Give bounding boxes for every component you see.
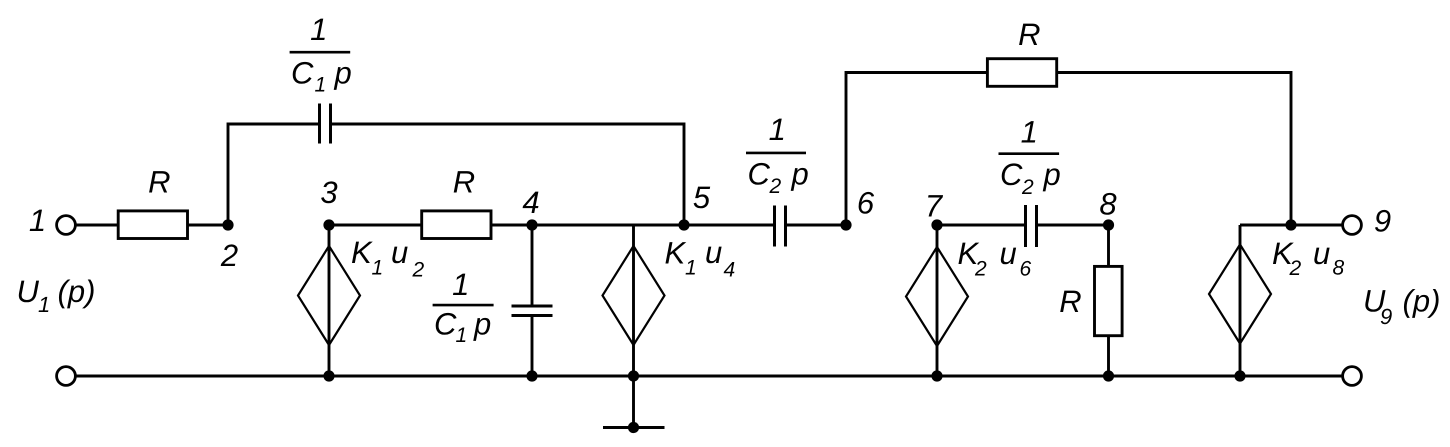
wire terminal1 to R1 xyxy=(76,224,119,227)
svg-text:8: 8 xyxy=(1333,257,1345,280)
wire capacitor C1b to rail xyxy=(531,317,534,376)
label K2 u8 xyxy=(1272,236,1345,280)
value label 1/C2p of C2b xyxy=(1000,115,1061,199)
wire node 5 to source branch xyxy=(634,224,685,227)
wire capacitor C1 to node 5 riser xyxy=(332,124,684,225)
node 9 junction xyxy=(1285,219,1296,230)
svg-text:R: R xyxy=(148,165,170,200)
svg-text:1: 1 xyxy=(1021,115,1038,150)
svg-text:2: 2 xyxy=(1289,257,1302,280)
svg-text:1: 1 xyxy=(372,257,384,280)
svg-text:4: 4 xyxy=(724,259,736,282)
svg-text:2: 2 xyxy=(769,175,782,198)
wire node 8 down to R4 xyxy=(1107,225,1110,266)
svg-text:p: p xyxy=(334,56,352,91)
wire diamond K2u8 to terminal 9 xyxy=(1240,224,1343,227)
resistor R4 xyxy=(1095,266,1123,335)
junction node5 branch on rail xyxy=(628,370,639,381)
svg-text:2: 2 xyxy=(974,258,987,281)
svg-text:5: 5 xyxy=(693,180,711,215)
svg-text:1: 1 xyxy=(29,203,46,238)
capacitor C2a plates xyxy=(773,206,776,247)
junction node7 branch on rail xyxy=(931,370,942,381)
node 8 xyxy=(1103,219,1114,230)
svg-text:8: 8 xyxy=(1099,187,1117,222)
svg-text:K: K xyxy=(665,236,687,271)
svg-text:3: 3 xyxy=(320,175,337,210)
svg-text:u: u xyxy=(1313,236,1330,271)
svg-text:(p): (p) xyxy=(1403,284,1441,319)
fraction bar of C1 label xyxy=(290,51,351,54)
wire node 3 to R2 xyxy=(329,224,422,227)
capacitor C2b plates xyxy=(1024,205,1027,247)
svg-text:C: C xyxy=(434,306,457,341)
svg-text:1: 1 xyxy=(310,12,327,47)
svg-text:C: C xyxy=(291,56,314,91)
wire source K2u8 branch down to rail xyxy=(1239,225,1242,376)
svg-text:1: 1 xyxy=(38,292,50,317)
ground stub xyxy=(632,376,635,428)
label U9(p) xyxy=(1363,284,1440,330)
label K2 u6 xyxy=(958,236,1032,281)
svg-text:1: 1 xyxy=(452,267,469,302)
wire node 7 down to rail xyxy=(936,225,939,376)
wire R4 to rail xyxy=(1107,335,1110,376)
svg-text:1: 1 xyxy=(456,324,468,347)
label U1(p) xyxy=(17,274,96,317)
resistor R2 xyxy=(422,211,491,239)
label K1 u4 xyxy=(665,235,736,282)
svg-text:U: U xyxy=(17,274,40,309)
resistor R3 xyxy=(987,59,1056,87)
wire R2 to node 5 xyxy=(491,224,684,227)
label K1 u2 xyxy=(351,235,425,282)
svg-text:u: u xyxy=(1000,236,1017,271)
terminal bottom right xyxy=(1343,367,1362,386)
node 6 xyxy=(840,219,851,230)
svg-text:p: p xyxy=(791,156,809,191)
svg-text:u: u xyxy=(705,235,722,270)
svg-text:C: C xyxy=(1000,157,1023,192)
node 2 xyxy=(222,219,233,230)
terminal 1 xyxy=(57,216,76,235)
terminal 9 xyxy=(1343,216,1362,235)
wire source branch down to rail xyxy=(632,225,635,376)
wire node 4 down to capacitor xyxy=(531,225,534,305)
value label 1/C1p of C1 xyxy=(291,12,352,97)
node 7 xyxy=(931,219,942,230)
svg-text:7: 7 xyxy=(925,189,944,224)
svg-text:C: C xyxy=(748,156,771,191)
svg-text:R: R xyxy=(1018,17,1040,52)
node 5 xyxy=(678,219,689,230)
fraction bar of C2b label xyxy=(999,152,1060,155)
junction node8 branch on rail xyxy=(1103,370,1114,381)
svg-text:1: 1 xyxy=(315,74,327,97)
svg-text:1: 1 xyxy=(685,257,697,280)
wire node 5 to capacitor C2a xyxy=(684,224,773,227)
wire R3 to node 9 riser xyxy=(1057,73,1291,226)
ground bar xyxy=(603,426,665,429)
svg-text:2: 2 xyxy=(220,238,238,273)
capacitor C1b plates xyxy=(512,305,553,308)
svg-text:K: K xyxy=(351,235,373,270)
terminal bottom left xyxy=(57,367,76,386)
node 3 xyxy=(323,219,334,230)
wire node 6 up to R3 xyxy=(846,73,987,226)
svg-text:R: R xyxy=(453,165,475,200)
svg-text:6: 6 xyxy=(1020,258,1032,281)
svg-text:(p): (p) xyxy=(58,274,96,309)
resistor R1 xyxy=(118,211,187,239)
wire node 3 down to rail xyxy=(328,225,331,376)
svg-text:9: 9 xyxy=(1374,204,1391,239)
svg-text:9: 9 xyxy=(1380,304,1392,329)
capacitor C1 plates xyxy=(318,104,321,144)
fraction bar of C1b label xyxy=(433,304,494,307)
wire node 2 up to capacitor C1 xyxy=(228,124,318,225)
svg-text:2: 2 xyxy=(412,259,425,282)
wire node 7 to capacitor C2b xyxy=(937,224,1024,227)
value label 1/C1p of C1b xyxy=(434,267,491,347)
svg-text:p: p xyxy=(473,306,491,341)
wire capacitor C2b to node 8 xyxy=(1038,224,1109,227)
node 4 xyxy=(526,219,537,230)
svg-text:4: 4 xyxy=(522,185,539,220)
wire R1 to node 2 xyxy=(188,224,229,227)
dependent source K2u6 diamond xyxy=(906,247,968,346)
svg-text:R: R xyxy=(1059,284,1081,319)
value label 1/C2p of C2a xyxy=(748,112,809,198)
svg-text:p: p xyxy=(1043,157,1061,192)
junction node3 on rail xyxy=(323,370,334,381)
svg-text:u: u xyxy=(391,235,408,270)
junction node4 branch on rail xyxy=(526,370,537,381)
ground dot xyxy=(628,422,639,433)
dependent source K2u8 diamond xyxy=(1209,245,1271,344)
bottom rail wire xyxy=(76,375,1343,378)
wire capacitor C2a to node 6 xyxy=(787,224,846,227)
svg-text:2: 2 xyxy=(1021,176,1034,199)
dependent source K1u4 diamond xyxy=(603,246,665,345)
svg-text:1: 1 xyxy=(769,112,786,147)
fraction bar of C2a label xyxy=(746,152,806,155)
svg-text:6: 6 xyxy=(857,186,875,221)
dependent source K1u2 diamond xyxy=(298,246,360,345)
junction K2u8 branch on rail xyxy=(1234,370,1245,381)
